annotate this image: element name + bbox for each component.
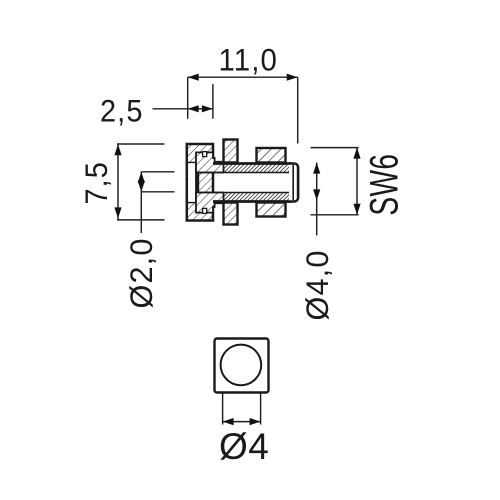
svg-text:2,5: 2,5 bbox=[100, 93, 144, 129]
svg-text:SW6: SW6 bbox=[362, 154, 406, 216]
svg-text:Ø2,0: Ø2,0 bbox=[123, 238, 159, 309]
svg-text:Ø4: Ø4 bbox=[219, 426, 269, 467]
svg-text:7,5: 7,5 bbox=[78, 161, 114, 205]
svg-text:Ø4,0: Ø4,0 bbox=[299, 250, 335, 321]
svg-text:11,0: 11,0 bbox=[219, 42, 279, 78]
